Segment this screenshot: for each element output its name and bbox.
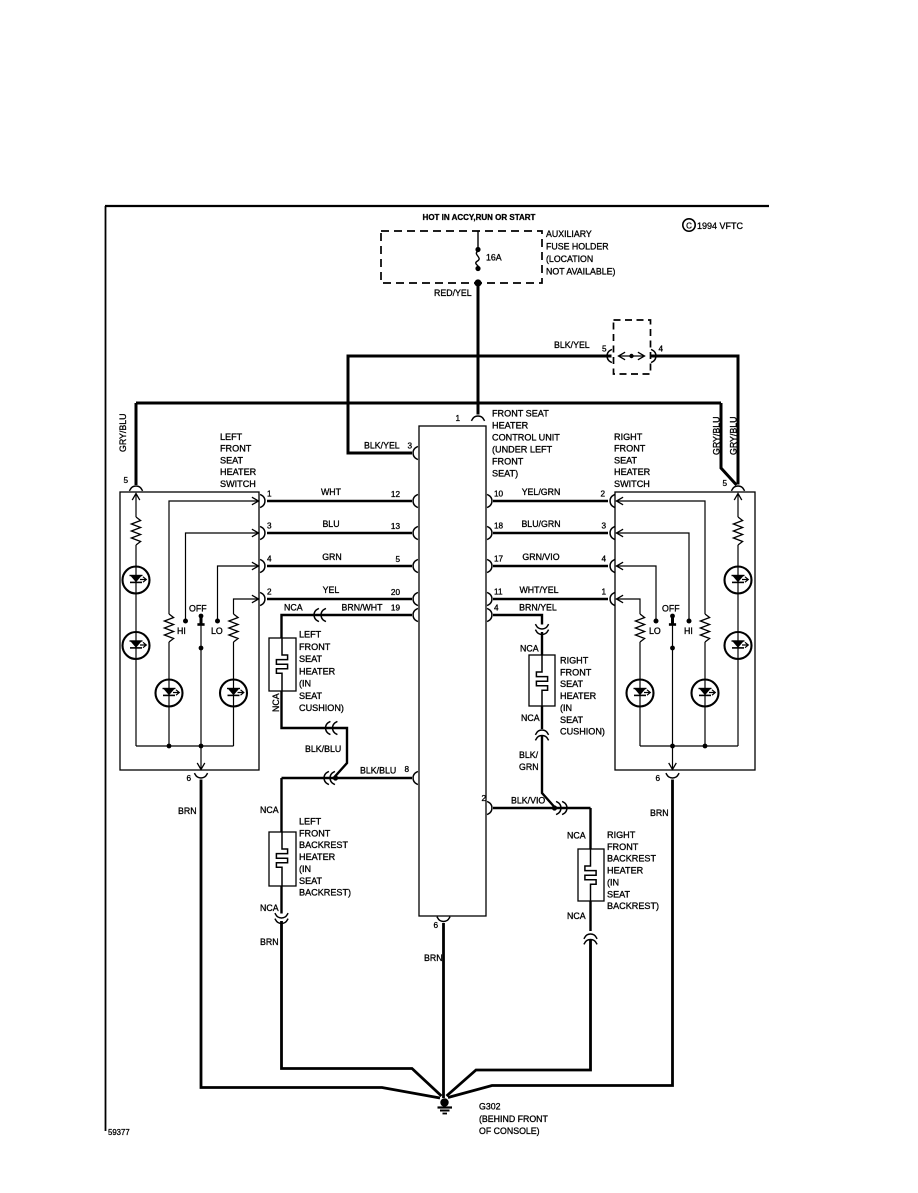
left switch pin 5 connector [129,486,142,491]
wire BRN right switch to ground [448,780,673,1098]
svg-text:59377: 59377 [108,1128,130,1137]
svg-text:16A: 16A [486,253,502,263]
svg-text:HEATER: HEATER [560,691,597,701]
left switch resistor LO branch [229,614,238,642]
right switch pin 1 arrow [617,595,624,603]
svg-text:1: 1 [455,414,460,423]
svg-text:FRONT: FRONT [299,828,331,838]
splice brackets left heater output [326,721,331,734]
right switch wire resistor to LED3 [704,642,706,680]
svg-text:HOT IN ACCY,RUN OR START: HOT IN ACCY,RUN OR START [423,213,536,222]
left switch pin 6 connector [194,773,207,778]
right switch pin 2 arrow [617,497,624,505]
svg-text:NCA: NCA [260,805,279,815]
right switch HI contact [687,619,692,624]
svg-text:HEATER: HEATER [614,467,651,477]
control unit pin 12 bracket [413,494,418,507]
wire below right cushion heater [541,706,543,729]
svg-text:SWITCH: SWITCH [614,479,650,489]
svg-text:NCA: NCA [284,603,303,613]
svg-text:BRN: BRN [650,808,669,818]
wire BLK/BLU down to left backrest heater [280,778,282,832]
svg-text:2: 2 [600,490,605,499]
svg-text:18: 18 [494,522,504,531]
left switch wire resistor to LED4 [233,642,235,680]
svg-text:LEFT: LEFT [220,432,243,442]
wire below left backrest heater [280,886,282,914]
wire BLU [267,532,412,534]
left switch indicator LED1 [123,567,150,594]
svg-text:17: 17 [494,555,504,564]
wire GRN/VIO [493,565,608,567]
svg-text:4: 4 [494,604,499,613]
svg-text:SEAT: SEAT [299,691,323,701]
right switch wire resistor to LED1 [737,545,739,567]
svg-text:6: 6 [186,774,191,783]
control unit pin 17 bracket [487,559,492,572]
svg-text:5: 5 [722,479,727,488]
right switch wire LED2 to bottom rail [737,659,739,746]
splice brackets on BLK/VIO [556,801,561,814]
right switch indicator LED3 [692,680,719,707]
svg-text:4: 4 [267,555,272,564]
splice brackets on BRN/WHT [314,608,319,621]
svg-text:12: 12 [391,490,401,499]
left switch rail junction B [199,744,204,749]
svg-text:GRY/BLU: GRY/BLU [712,417,722,455]
left switch resistor HI branch [164,614,173,642]
svg-text:BLK/YEL: BLK/YEL [364,441,400,451]
svg-text:OFF: OFF [189,604,207,614]
svg-text:SWITCH: SWITCH [220,479,256,489]
svg-text:SEAT): SEAT) [492,469,518,479]
wire BLK/BLU horizontal to control unit pin 8 [282,777,413,779]
svg-text:8: 8 [404,765,409,774]
svg-text:BRN: BRN [424,953,443,963]
svg-text:SEAT: SEAT [560,715,584,725]
junction fuse output [474,279,481,286]
right switch pin 4 arrow [617,562,624,570]
junction BLK/VIO [552,805,557,810]
svg-text:1994 VFTC: 1994 VFTC [697,221,744,231]
left switch pin 3 branch wire to HI contact [186,533,260,619]
left switch pin 5 branch arrow [132,494,140,501]
svg-text:NCA: NCA [567,911,586,921]
junction BLK/BLU [333,775,338,780]
right switch resistor pin5 branch [733,517,742,545]
svg-text:SEAT: SEAT [299,876,323,886]
left switch pin 2 connector [260,592,265,605]
left switch pin 4 connector [260,559,265,572]
wire GRY/BLU drop to left switch pin 5 [135,403,138,485]
left switch pin 6 arrow [200,746,202,769]
svg-text:YEL: YEL [323,585,340,595]
svg-text:BLK/BLU: BLK/BLU [360,766,396,776]
svg-text:(UNDER LEFT: (UNDER LEFT [492,445,553,455]
control unit pin 8 bracket [413,771,418,784]
control unit pin 11 bracket [487,592,492,605]
left switch pin 2 branch wire [234,599,260,614]
svg-text:CUSHION): CUSHION) [299,703,344,713]
left switch resistor pin5 branch [131,517,140,545]
wire BRN/WHT from NCA corner to control unit pin 19 [282,615,413,638]
right switch pin 6 connector [666,773,679,778]
right switch wire LED1 to LED2 [737,594,739,633]
left switch indicator LED3 [156,680,183,707]
svg-text:FRONT SEAT: FRONT SEAT [492,409,549,419]
svg-text:CUSHION): CUSHION) [560,727,605,737]
right switch pin 5 connector [731,486,744,491]
svg-text:FRONT: FRONT [614,444,646,454]
left front seat heater box [269,638,296,691]
svg-text:BLK/BLU: BLK/BLU [305,744,341,754]
svg-text:SEAT: SEAT [614,455,638,465]
right switch pin 6 arrow [672,746,674,769]
svg-text:NCA: NCA [521,713,540,723]
right switch pin 2 connector [610,494,615,507]
svg-text:BACKREST): BACKREST) [607,901,659,911]
inline connector right cushion top (smiles) [535,624,548,629]
svg-text:(BEHIND FRONT: (BEHIND FRONT [479,1114,549,1124]
svg-text:13: 13 [391,522,401,531]
wire GRY/BLU drop right (from bus) to right switch pin 5 [721,403,737,485]
svg-text:RIGHT: RIGHT [560,656,589,666]
left front backrest heater element [276,832,287,886]
svg-text:BLK/VIO: BLK/VIO [511,796,545,806]
connector bracket right [651,349,656,362]
control unit pin 6 connector [437,917,450,922]
left switch box [120,492,259,770]
right switch junction below OFF [670,646,675,651]
right switch pin 3 connector [610,526,615,539]
wire BRN left backrest to ground [282,921,442,1096]
right switch pin 5 branch arrow [734,494,742,501]
left switch pin 5 branch wire upper [135,494,137,518]
svg-text:HEATER: HEATER [607,866,644,876]
wire BRN left switch to ground [201,780,440,1099]
left switch pin 1 arrow [252,497,259,505]
svg-text:FRONT: FRONT [607,842,639,852]
wire WHT/YEL [493,598,608,600]
wire GRY/BLU bus [136,402,721,405]
svg-text:BRN: BRN [260,937,279,947]
svg-text:3: 3 [407,442,412,451]
svg-text:LEFT: LEFT [299,817,322,827]
svg-text:BLK/: BLK/ [519,750,539,760]
control unit pin 20 bracket [413,592,418,605]
wire BLK/YEL connector to right switch pin 5 [651,356,738,485]
svg-text:(IN: (IN [560,703,572,713]
right switch LO contact [654,619,659,624]
right switch rail junction A [670,744,675,749]
left front backrest heater box [269,832,296,886]
right switch pin 4 branch wire to LO contact [616,566,656,619]
right switch rail junction B [703,744,708,749]
svg-text:RED/YEL: RED/YEL [434,288,472,298]
svg-text:BRN/YEL: BRN/YEL [519,603,557,613]
left switch rail junction A [167,744,172,749]
front seat heater control unit box [419,426,486,916]
right front seat heater box [529,655,555,706]
left switch junction below OFF [199,646,204,651]
wire BLK/VIO down to right backrest heater [589,808,591,849]
svg-text:2: 2 [481,794,486,803]
control unit pin 18 bracket [487,526,492,539]
control unit pin 3 bracket [413,446,418,459]
svg-text:BACKREST: BACKREST [607,854,656,864]
wire RED/YEL fuse to control unit pin 1 [477,283,480,415]
left switch wire LED3 to rail [168,707,170,747]
wire right backrest to ground [447,939,591,1096]
svg-text:6: 6 [433,921,438,930]
wire BRN/YEL to right cushion heater [493,615,542,625]
svg-text:(IN: (IN [299,864,311,874]
svg-text:HI: HI [177,626,186,636]
connector bracket left [607,349,612,362]
inline connector right cushion bottom (frowns) [535,730,548,735]
control unit pin 4 bracket [487,608,492,621]
right front backrest heater box [578,849,604,901]
wire YEL/GRN [493,500,608,502]
auxiliary fuse holder dashed box [381,231,542,283]
right switch pin 5 branch wire upper [737,494,739,518]
control unit pin 13 bracket [413,526,418,539]
svg-text:(LOCATION: (LOCATION [546,254,593,264]
left switch OFF wire down [200,626,202,747]
wire left heater to BLK/BLU splice [282,691,348,777]
svg-text:LO: LO [211,626,223,636]
right switch indicator LED1 [725,567,752,594]
inline connector right backrest (frowns) [584,934,597,939]
left switch OFF contact [199,614,204,619]
wire YEL [267,598,412,600]
svg-text:G302: G302 [479,1102,501,1112]
connector internal arrows and splice dot [629,354,633,358]
svg-text:FRONT: FRONT [220,444,252,454]
left switch pin 2 arrow [252,595,259,603]
svg-text:5: 5 [602,345,607,354]
left switch wire LED2 to bottom rail [135,659,137,746]
svg-text:YEL/GRN: YEL/GRN [522,487,561,497]
inline connector dashed box pins 5-4 [614,320,651,374]
svg-text:LEFT: LEFT [299,630,322,640]
wire BLK/YEL left segment to inline connector [348,355,612,358]
right switch indicator LED2 [725,632,752,659]
svg-text:4: 4 [601,555,606,564]
left switch LO contact [215,619,220,624]
left switch pin 4 branch wire to LO contact [218,566,260,619]
left switch pin 4 arrow [252,562,259,570]
svg-text:FRONT: FRONT [560,667,592,677]
control unit pin 19 bracket [413,608,418,621]
control unit pin 5 bracket [413,559,418,572]
svg-text:GRY/BLU: GRY/BLU [729,417,739,455]
svg-text:HEATER: HEATER [299,852,336,862]
right switch resistor HI branch [700,614,709,642]
left switch wire resistor to LED1 [135,545,137,567]
wire BLK/YEL drop to control unit pin 3 [348,355,412,454]
wire WHT [267,500,412,502]
svg-text:OFF: OFF [662,604,680,614]
wire BLU/GRN [493,532,608,534]
splice brackets on BLK/BLU [324,771,329,784]
right switch pin 4 connector [610,559,615,572]
svg-text:SEAT: SEAT [560,679,584,689]
svg-text:HEATER: HEATER [299,666,336,676]
right switch OFF wire down [672,626,674,747]
svg-text:RIGHT: RIGHT [607,830,636,840]
left switch wire LED4 to rail [233,707,235,747]
right switch wire LED4 to rail [639,707,641,747]
right switch pin 1 connector [610,592,615,605]
control unit pin 10 bracket [487,494,492,507]
svg-text:GRY/BLU: GRY/BLU [118,414,128,452]
left switch pin 1 branch wire [169,501,259,614]
wire below right backrest heater [589,901,591,931]
fuse F 16A [477,231,479,248]
svg-text:(IN: (IN [607,877,619,887]
wire GRN [267,565,412,567]
svg-text:GRN: GRN [322,552,342,562]
svg-text:BRN: BRN [178,806,197,816]
wire BLK/GRN down to BLK/VIO junction [542,736,554,807]
left switch pin 3 arrow [252,529,259,537]
left switch indicator LED2 [123,632,150,659]
svg-text:NCA: NCA [271,693,281,712]
svg-text:(IN: (IN [299,679,311,689]
left front seat heater element [276,638,287,691]
svg-text:BLU: BLU [322,519,339,529]
svg-text:FRONT: FRONT [492,457,524,467]
svg-text:OF CONSOLE): OF CONSOLE) [479,1126,540,1136]
svg-text:WHT: WHT [321,487,342,497]
wire connector to right cushion heater [541,632,543,655]
right switch box [615,492,755,770]
svg-text:BLU/GRN: BLU/GRN [521,519,560,529]
control unit pin 1 connector [471,416,484,421]
right switch pin 1 branch wire [616,599,640,614]
svg-text:10: 10 [494,490,504,499]
ground G302 symbol [440,1098,448,1106]
svg-text:FRONT: FRONT [299,642,331,652]
wire BLK/VIO [493,807,591,809]
right switch pin 3 branch wire to HI contact [616,533,689,619]
right switch indicator LED4 [627,680,654,707]
svg-text:AUXILIARY: AUXILIARY [546,229,592,239]
svg-text:BRN/WHT: BRN/WHT [341,603,383,613]
svg-text:LO: LO [649,626,661,636]
left switch indicator LED4 [220,680,247,707]
right switch pin 3 arrow [617,529,624,537]
svg-text:BACKREST): BACKREST) [299,888,351,898]
right front seat heater element [536,655,547,706]
svg-text:NOT AVAILABLE): NOT AVAILABLE) [546,267,615,277]
svg-text:19: 19 [391,604,401,613]
svg-text:FUSE HOLDER: FUSE HOLDER [546,242,609,252]
svg-text:3: 3 [601,522,606,531]
left switch HI contact [183,619,188,624]
svg-text:6: 6 [655,774,660,783]
copyright 1994 VFTC [683,219,695,231]
svg-text:WHT/YEL: WHT/YEL [519,585,558,595]
svg-text:C: C [686,222,692,231]
svg-text:SEAT: SEAT [220,455,244,465]
right switch pin 2 branch wire [616,501,705,614]
svg-text:11: 11 [494,588,503,597]
right switch bottom rail [640,745,738,747]
right switch OFF contact [670,614,675,619]
svg-text:5: 5 [395,555,400,564]
svg-text:BACKREST: BACKREST [299,840,348,850]
svg-text:NCA: NCA [567,831,586,841]
right front backrest heater element [585,849,596,901]
svg-text:1: 1 [601,588,606,597]
svg-text:GRN: GRN [519,762,539,772]
svg-text:RIGHT: RIGHT [614,432,643,442]
svg-text:3: 3 [267,522,272,531]
svg-text:HEATER: HEATER [220,467,257,477]
svg-text:BLK/YEL: BLK/YEL [554,340,590,350]
svg-text:NCA: NCA [260,903,279,913]
svg-text:1: 1 [267,490,272,499]
svg-text:CONTROL UNIT: CONTROL UNIT [492,433,560,443]
svg-text:5: 5 [123,476,128,485]
svg-text:SEAT: SEAT [299,654,323,664]
svg-text:GRN/VIO: GRN/VIO [522,552,559,562]
left switch bottom rail [136,745,234,747]
left switch wire resistor to LED3 [168,642,170,680]
control unit pin 2 bracket [487,801,492,814]
svg-text:HI: HI [684,626,693,636]
right switch wire LED3 to rail [704,707,706,747]
inline connector left backrest (smiles) [275,913,288,918]
svg-text:NCA: NCA [520,644,539,654]
svg-text:SEAT: SEAT [607,889,631,899]
left switch wire LED1 to LED2 [135,594,137,633]
wire BRN control unit to ground [442,923,445,1098]
left switch pin 1 connector [260,494,265,507]
right switch wire resistor to LED4 [639,642,641,680]
svg-text:HEATER: HEATER [492,421,529,431]
left switch pin 3 connector [260,526,265,539]
svg-text:2: 2 [267,588,272,597]
svg-text:4: 4 [659,345,664,354]
right switch resistor LO branch [635,614,644,642]
svg-text:20: 20 [391,588,401,597]
